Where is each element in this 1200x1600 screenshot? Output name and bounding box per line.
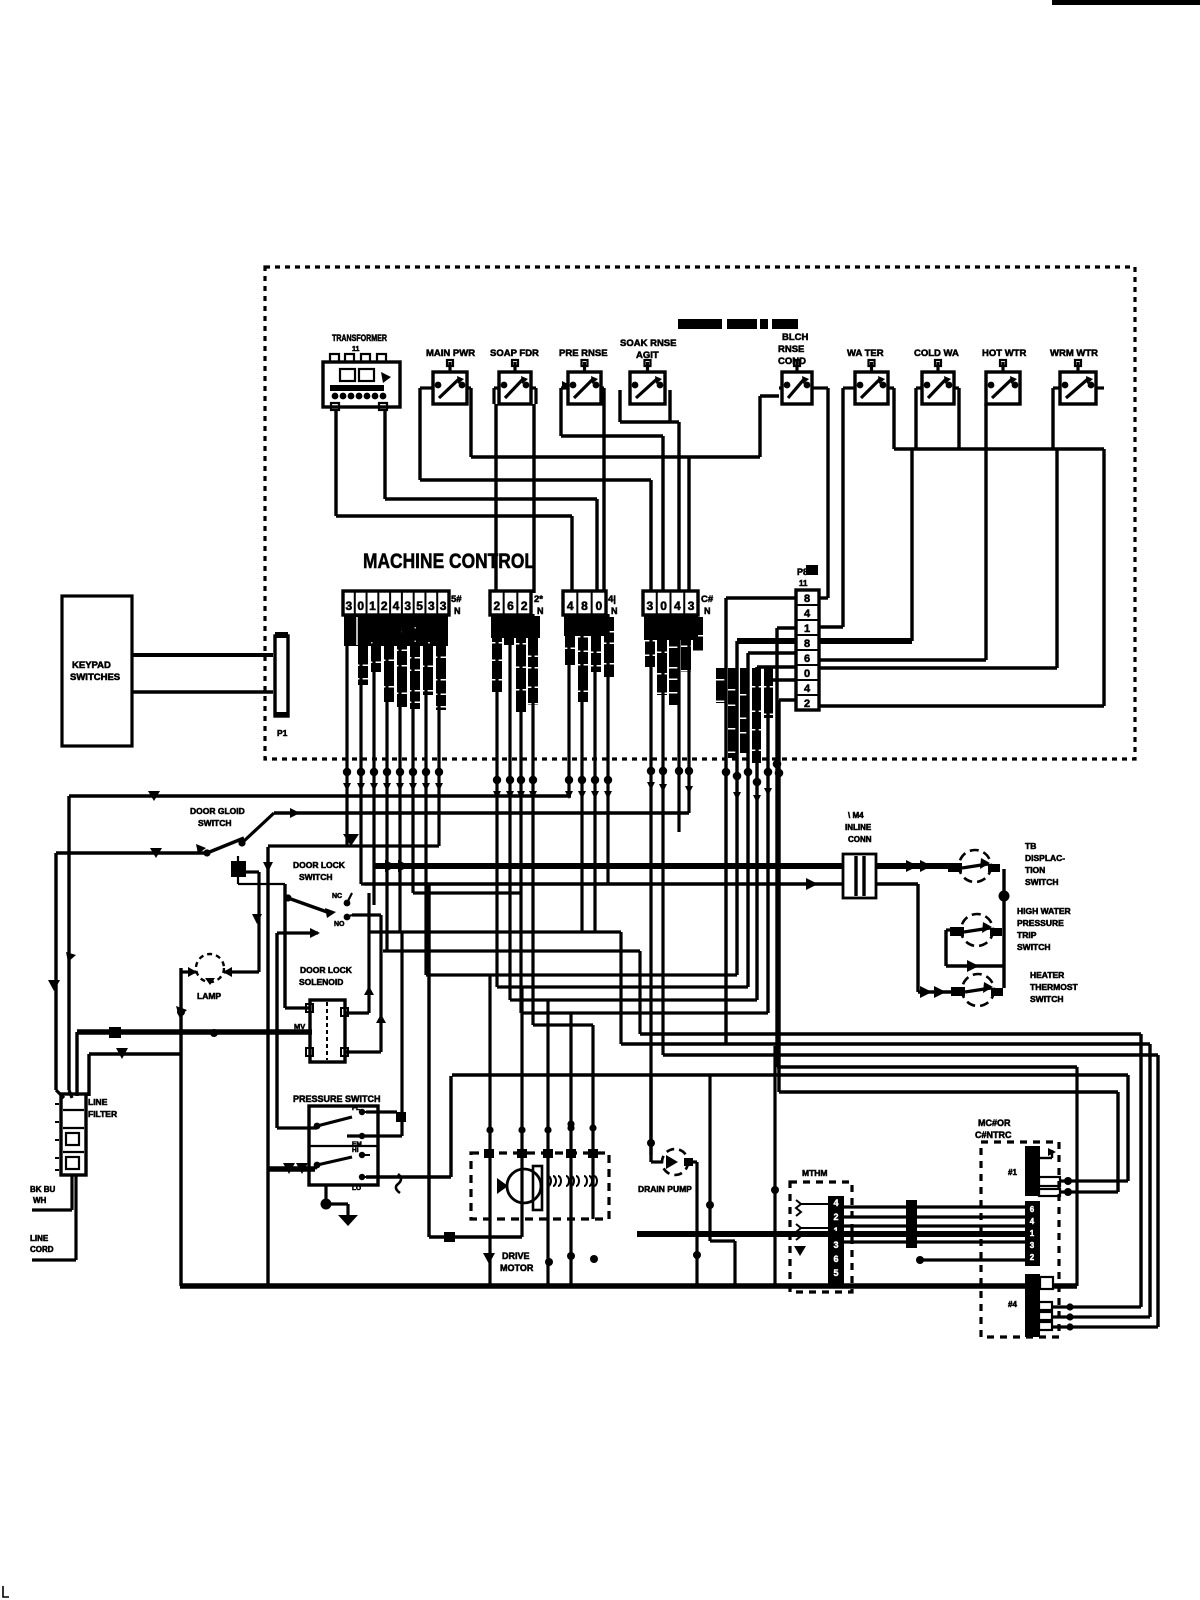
- svg-text:3: 3: [404, 599, 411, 613]
- svg-text:DOOR LOCK: DOOR LOCK: [300, 965, 353, 975]
- thick line after fuse: [876, 863, 948, 869]
- wire P5 to heater stat return: [364, 882, 918, 885]
- svg-text:6: 6: [833, 1254, 838, 1264]
- svg-text:#1: #1: [1008, 1168, 1017, 1177]
- svg-text:SOAP FDR: SOAP FDR: [490, 348, 539, 359]
- svg-text:DISPLAC-: DISPLAC-: [1025, 853, 1065, 863]
- motor winding to PS feed: [520, 1219, 523, 1237]
- wire K6-left to P9 pin2: [841, 388, 844, 627]
- thick wire bus to P9 pin3: [910, 449, 913, 641]
- svg-text:N: N: [454, 606, 461, 616]
- svg-text:2*: 2*: [534, 594, 543, 605]
- label mass under P3: [564, 616, 608, 636]
- long vertical to pressure switch thick feed: [266, 847, 269, 1286]
- P3 pin drops: [567, 614, 570, 796]
- svg-text:WA TER: WA TER: [847, 348, 884, 359]
- svg-text:CORD: CORD: [30, 1245, 54, 1254]
- scan artifact bar: [1052, 0, 1200, 5]
- svg-text:HIGH WATER: HIGH WATER: [1017, 906, 1071, 916]
- svg-text:SWITCH: SWITCH: [1017, 942, 1051, 952]
- wire solenoid stub: [345, 1011, 369, 1014]
- stat series link right: [1002, 869, 1005, 988]
- relay K1: [426, 348, 475, 404]
- door glow drop link: [237, 877, 239, 884]
- PS feed top: [277, 1126, 317, 1129]
- svg-text:FL: FL: [352, 1105, 360, 1112]
- K4 outer loop: [618, 390, 621, 422]
- junction lamp drop: [177, 1008, 185, 1016]
- label mass under P2: [491, 616, 540, 638]
- svg-text:MAIN PWR: MAIN PWR: [426, 348, 475, 359]
- svg-text:4: 4: [833, 1198, 838, 1208]
- wire name labels P3: [565, 617, 614, 702]
- wire L-feed top horizontal: [69, 794, 571, 797]
- svg-text:1: 1: [1030, 1229, 1035, 1238]
- svg-text:DOOR GLOID: DOOR GLOID: [190, 806, 245, 816]
- arrows on solenoid risers: [364, 986, 374, 995]
- svg-text:N: N: [704, 606, 711, 616]
- svg-text:3: 3: [1030, 1241, 1035, 1250]
- ribbon to P1: [132, 653, 273, 657]
- door lock switch left drop: [283, 884, 286, 1008]
- svg-text:2: 2: [493, 599, 500, 613]
- svg-text:LINE: LINE: [88, 1097, 108, 1107]
- stat2 zigzag: [946, 928, 951, 931]
- svg-text:N: N: [611, 606, 618, 616]
- arrow into doorlock drop: [343, 834, 359, 846]
- svg-text:SWITCH: SWITCH: [1025, 877, 1059, 887]
- heater stat return drop: [916, 884, 919, 992]
- svg-text:#4: #4: [1008, 1300, 1017, 1309]
- svg-text:SWITCHES: SWITCHES: [70, 672, 120, 683]
- svg-text:11: 11: [799, 579, 808, 588]
- door lock solenoid: [294, 965, 353, 1062]
- svg-text:HEATER: HEATER: [1030, 970, 1064, 980]
- svg-text:THERMOST: THERMOST: [1030, 982, 1079, 992]
- PS NO to pump run: [366, 1175, 451, 1178]
- svg-text:1: 1: [804, 623, 810, 635]
- connector J4: [1025, 1274, 1040, 1337]
- pump feed horizontal: [452, 1073, 1128, 1076]
- wire filter to lamp drop: [89, 1052, 181, 1055]
- wire K3-right to P3: [602, 388, 605, 593]
- svg-text:PRESSURE SWITCH: PRESSURE SWITCH: [293, 1094, 381, 1104]
- wire name labels P2: [492, 617, 538, 712]
- wire doorlock NC run: [413, 891, 520, 894]
- svg-text:4: 4: [393, 599, 400, 613]
- connector P9: [796, 565, 819, 710]
- svg-text:PRE RNSE: PRE RNSE: [559, 348, 608, 359]
- svg-text:DRAIN PUMP: DRAIN PUMP: [638, 1184, 692, 1194]
- relay side leads: [420, 386, 1104, 389]
- arrows: [148, 791, 160, 801]
- pump return: [688, 1160, 697, 1163]
- svg-text:1: 1: [369, 599, 376, 613]
- vertical to pressure switch top feed: [275, 933, 278, 1128]
- wire left to door glow switch: [56, 851, 207, 854]
- svg-text:0: 0: [357, 599, 364, 613]
- wire name labels P5: [345, 617, 446, 710]
- svg-text:5: 5: [416, 599, 423, 613]
- wire K1-right to K5: [469, 388, 472, 457]
- svg-text:2: 2: [381, 599, 388, 613]
- relay K8: [982, 348, 1026, 404]
- corner mark: [3, 1586, 9, 1597]
- svg-text:0: 0: [804, 668, 810, 680]
- door lock switch: [284, 860, 352, 928]
- tub displacement switch: [948, 841, 1065, 887]
- wire K5-right to P9 pin1: [826, 388, 829, 598]
- connector P4: [643, 591, 714, 616]
- svg-text:4: 4: [1030, 1217, 1035, 1226]
- drive motor box: [471, 1153, 609, 1273]
- door glow switch: [190, 806, 274, 877]
- svg-text:MC#OR: MC#OR: [978, 1118, 1011, 1128]
- wire xfmr-right to P3: [383, 410, 386, 499]
- P2 pin drops: [495, 614, 498, 987]
- svg-text:5#: 5#: [451, 594, 462, 605]
- lamp left drop to bus: [179, 968, 182, 1286]
- svg-text:\ M4: \ M4: [848, 811, 864, 820]
- svg-text:11: 11: [352, 346, 360, 353]
- junction square PS NC: [396, 1112, 406, 1122]
- J4 wires up-right: [1052, 1305, 1141, 1308]
- svg-text:8: 8: [804, 638, 810, 650]
- svg-text:2: 2: [521, 599, 528, 613]
- transformer T1: [323, 333, 400, 410]
- svg-text:8: 8: [581, 599, 588, 613]
- door glow feed cross run: [268, 844, 439, 847]
- solenoid B vertical: [379, 915, 382, 1052]
- svg-text:4: 4: [674, 599, 681, 613]
- connector J2: [1025, 1201, 1040, 1266]
- svg-text:SWITCH: SWITCH: [299, 872, 333, 882]
- svg-text:N: N: [537, 606, 544, 616]
- motor terminals top: [484, 1149, 494, 1158]
- right loop lines: [640, 1032, 1141, 1035]
- svg-text:RNSE: RNSE: [778, 344, 804, 355]
- svg-text:SOAK RNSE: SOAK RNSE: [620, 338, 676, 349]
- svg-text:COLD WA: COLD WA: [914, 348, 959, 359]
- svg-text:NO: NO: [334, 921, 345, 928]
- relay K2: [490, 348, 539, 404]
- bottom neutral bus: [180, 1283, 1077, 1289]
- svg-text:BLCH: BLCH: [782, 332, 809, 343]
- wire K9-right to P9 pin8: [1102, 449, 1105, 706]
- svg-text:4: 4: [804, 683, 811, 695]
- svg-text:PRESSURE: PRESSURE: [1017, 918, 1064, 928]
- svg-text:SWITCH: SWITCH: [198, 818, 232, 828]
- svg-text:WH: WH: [33, 1196, 47, 1205]
- wire run y951: [383, 949, 640, 952]
- wire bus drop to P9 pin6: [1055, 449, 1058, 668]
- thick line L1 to fuse: [374, 863, 845, 869]
- svg-text:6: 6: [804, 653, 810, 665]
- svg-text:3: 3: [647, 599, 654, 613]
- connector P5: [343, 591, 462, 616]
- svg-text:INLINE: INLINE: [845, 823, 872, 832]
- P4 pin drops: [649, 614, 652, 1162]
- wire solenoid A run: [369, 930, 621, 933]
- svg-text:5: 5: [833, 1268, 838, 1278]
- svg-text:DOOR LOCK: DOOR LOCK: [293, 860, 346, 870]
- long verticals left zone: [67, 796, 70, 1090]
- svg-text:CONN: CONN: [848, 835, 872, 844]
- relay K4: [620, 338, 676, 404]
- svg-text:MV: MV: [294, 1022, 305, 1031]
- svg-text:TB: TB: [1025, 841, 1036, 851]
- svg-text:6: 6: [1030, 1205, 1035, 1214]
- heater thermostat switch: [951, 970, 1079, 1006]
- svg-text:2: 2: [804, 698, 810, 710]
- J1 wires up-right: [1060, 1179, 1128, 1182]
- line filter: [55, 1090, 117, 1175]
- wire door-glow to P4 pin: [274, 811, 689, 814]
- P9 left stubs to bundle: [726, 596, 796, 599]
- motor connector box: [790, 1168, 852, 1292]
- connector bullets at enclosure exit: [343, 760, 784, 787]
- doorlock NO to thick: [372, 866, 375, 905]
- svg-text:COND: COND: [778, 356, 806, 367]
- wire doorlock NO run: [352, 913, 381, 916]
- drain pump: [638, 1075, 693, 1194]
- bundle verticals descending: [724, 598, 727, 1044]
- relay K3: [559, 348, 608, 404]
- svg-text:3: 3: [688, 599, 695, 613]
- svg-text:NC: NC: [332, 893, 342, 900]
- wire K8-left to P9 pin5: [984, 404, 987, 660]
- wire bus drop to P4: [687, 457, 690, 593]
- svg-text:4: 4: [804, 608, 811, 620]
- motor control box: [975, 1118, 1059, 1337]
- lamp right link arrow: [252, 914, 262, 924]
- svg-text:2: 2: [1030, 1253, 1035, 1262]
- exit arrows below bullets: [343, 783, 351, 791]
- motor bottom arrows: [483, 1253, 495, 1264]
- vertical at motor box left: [773, 1046, 776, 1286]
- label mass under P4: [644, 616, 698, 640]
- svg-text:3: 3: [440, 599, 447, 613]
- thick neutral to solenoid: [77, 1029, 312, 1035]
- svg-text:2: 2: [833, 1212, 838, 1222]
- svg-text:3: 3: [428, 599, 435, 613]
- svg-text:C#: C#: [701, 594, 714, 605]
- motor feed verticals: [488, 975, 491, 1286]
- svg-text:P1: P1: [277, 728, 288, 738]
- svg-text:DRIVE: DRIVE: [502, 1251, 530, 1261]
- connector J1: [1025, 1146, 1040, 1196]
- svg-text:6: 6: [507, 599, 514, 613]
- ground at pressure switch: [321, 1185, 359, 1226]
- svg-text:LAMP: LAMP: [197, 991, 221, 1001]
- svg-text:TION: TION: [1025, 865, 1045, 875]
- second pump-side return: [708, 1075, 711, 1241]
- svg-text:4: 4: [567, 599, 574, 613]
- relay K6: [847, 348, 888, 404]
- svg-text:3: 3: [346, 599, 353, 613]
- svg-text:C#NTRC: C#NTRC: [975, 1130, 1012, 1140]
- svg-text:LO: LO: [352, 1185, 361, 1192]
- svg-text:MACHINE CONTROL: MACHINE CONTROL: [363, 550, 535, 573]
- svg-text:BK BU: BK BU: [30, 1185, 56, 1194]
- wire K4 to P4: [670, 420, 679, 423]
- solenoid A vertical: [367, 893, 370, 1013]
- wire K2-right to P2: [534, 388, 537, 404]
- pressure switch feed thick: [268, 1166, 315, 1172]
- wire xfmr-left to P3: [334, 410, 337, 516]
- sw3 left feed: [918, 990, 951, 993]
- staircase runs to bundle: [426, 973, 737, 976]
- relay K5: [778, 332, 812, 404]
- svg-text:0: 0: [660, 599, 667, 613]
- P5 pin drops: [345, 614, 348, 846]
- PS NC riser: [400, 932, 403, 1136]
- stat3 left arrows: [920, 986, 932, 998]
- relay K9: [1050, 348, 1098, 404]
- wire K1-left to P4: [418, 388, 421, 480]
- connector P2: [490, 591, 544, 616]
- relay K7: [914, 348, 959, 404]
- svg-text:FILTER: FILTER: [88, 1109, 117, 1119]
- motor to J2 wires: [637, 1200, 1025, 1264]
- pressure switch: [293, 1094, 397, 1192]
- connector P3: [563, 591, 618, 616]
- inline fuse link: [843, 811, 876, 898]
- wire name labels near P9: [716, 668, 773, 763]
- svg-text:3: 3: [833, 1240, 838, 1250]
- svg-text:HOT WTR: HOT WTR: [982, 348, 1026, 359]
- wire K3-left to P4: [559, 388, 562, 436]
- svg-text:LINE: LINE: [30, 1234, 49, 1243]
- high water pressure switch: [950, 906, 1071, 952]
- svg-text:KEYPAD: KEYPAD: [72, 660, 111, 671]
- bus riser to J2 thick: [1075, 1067, 1078, 1286]
- machine control dashed enclosure: [265, 267, 1135, 759]
- label mass under P5: [344, 616, 448, 646]
- svg-text:TRIP: TRIP: [1017, 930, 1037, 940]
- svg-text:4|: 4|: [608, 594, 616, 605]
- svg-text:0: 0: [595, 599, 602, 613]
- svg-text:TRANSFORMER: TRANSFORMER: [332, 333, 387, 344]
- console switches box: [62, 596, 132, 746]
- svg-text:SOLENOID: SOLENOID: [299, 977, 343, 987]
- svg-text:SWITCH: SWITCH: [1030, 994, 1064, 1004]
- relay bus K6-K9: [892, 388, 895, 449]
- svg-text:HI: HI: [352, 1147, 359, 1154]
- wire K2-left to P2: [492, 388, 495, 404]
- motor feed riser: [427, 884, 430, 1237]
- svg-text:8: 8: [804, 593, 810, 605]
- connector P1: [275, 636, 288, 716]
- wire y884 behind fuse: [806, 878, 818, 890]
- svg-text:WRM WTR: WRM WTR: [1050, 348, 1098, 359]
- header label: [678, 319, 722, 329]
- svg-text:MOTOR: MOTOR: [500, 1263, 534, 1273]
- wire name labels P4: [645, 617, 703, 705]
- svg-text:MTHM: MTHM: [802, 1168, 828, 1178]
- lamp: [181, 872, 259, 1001]
